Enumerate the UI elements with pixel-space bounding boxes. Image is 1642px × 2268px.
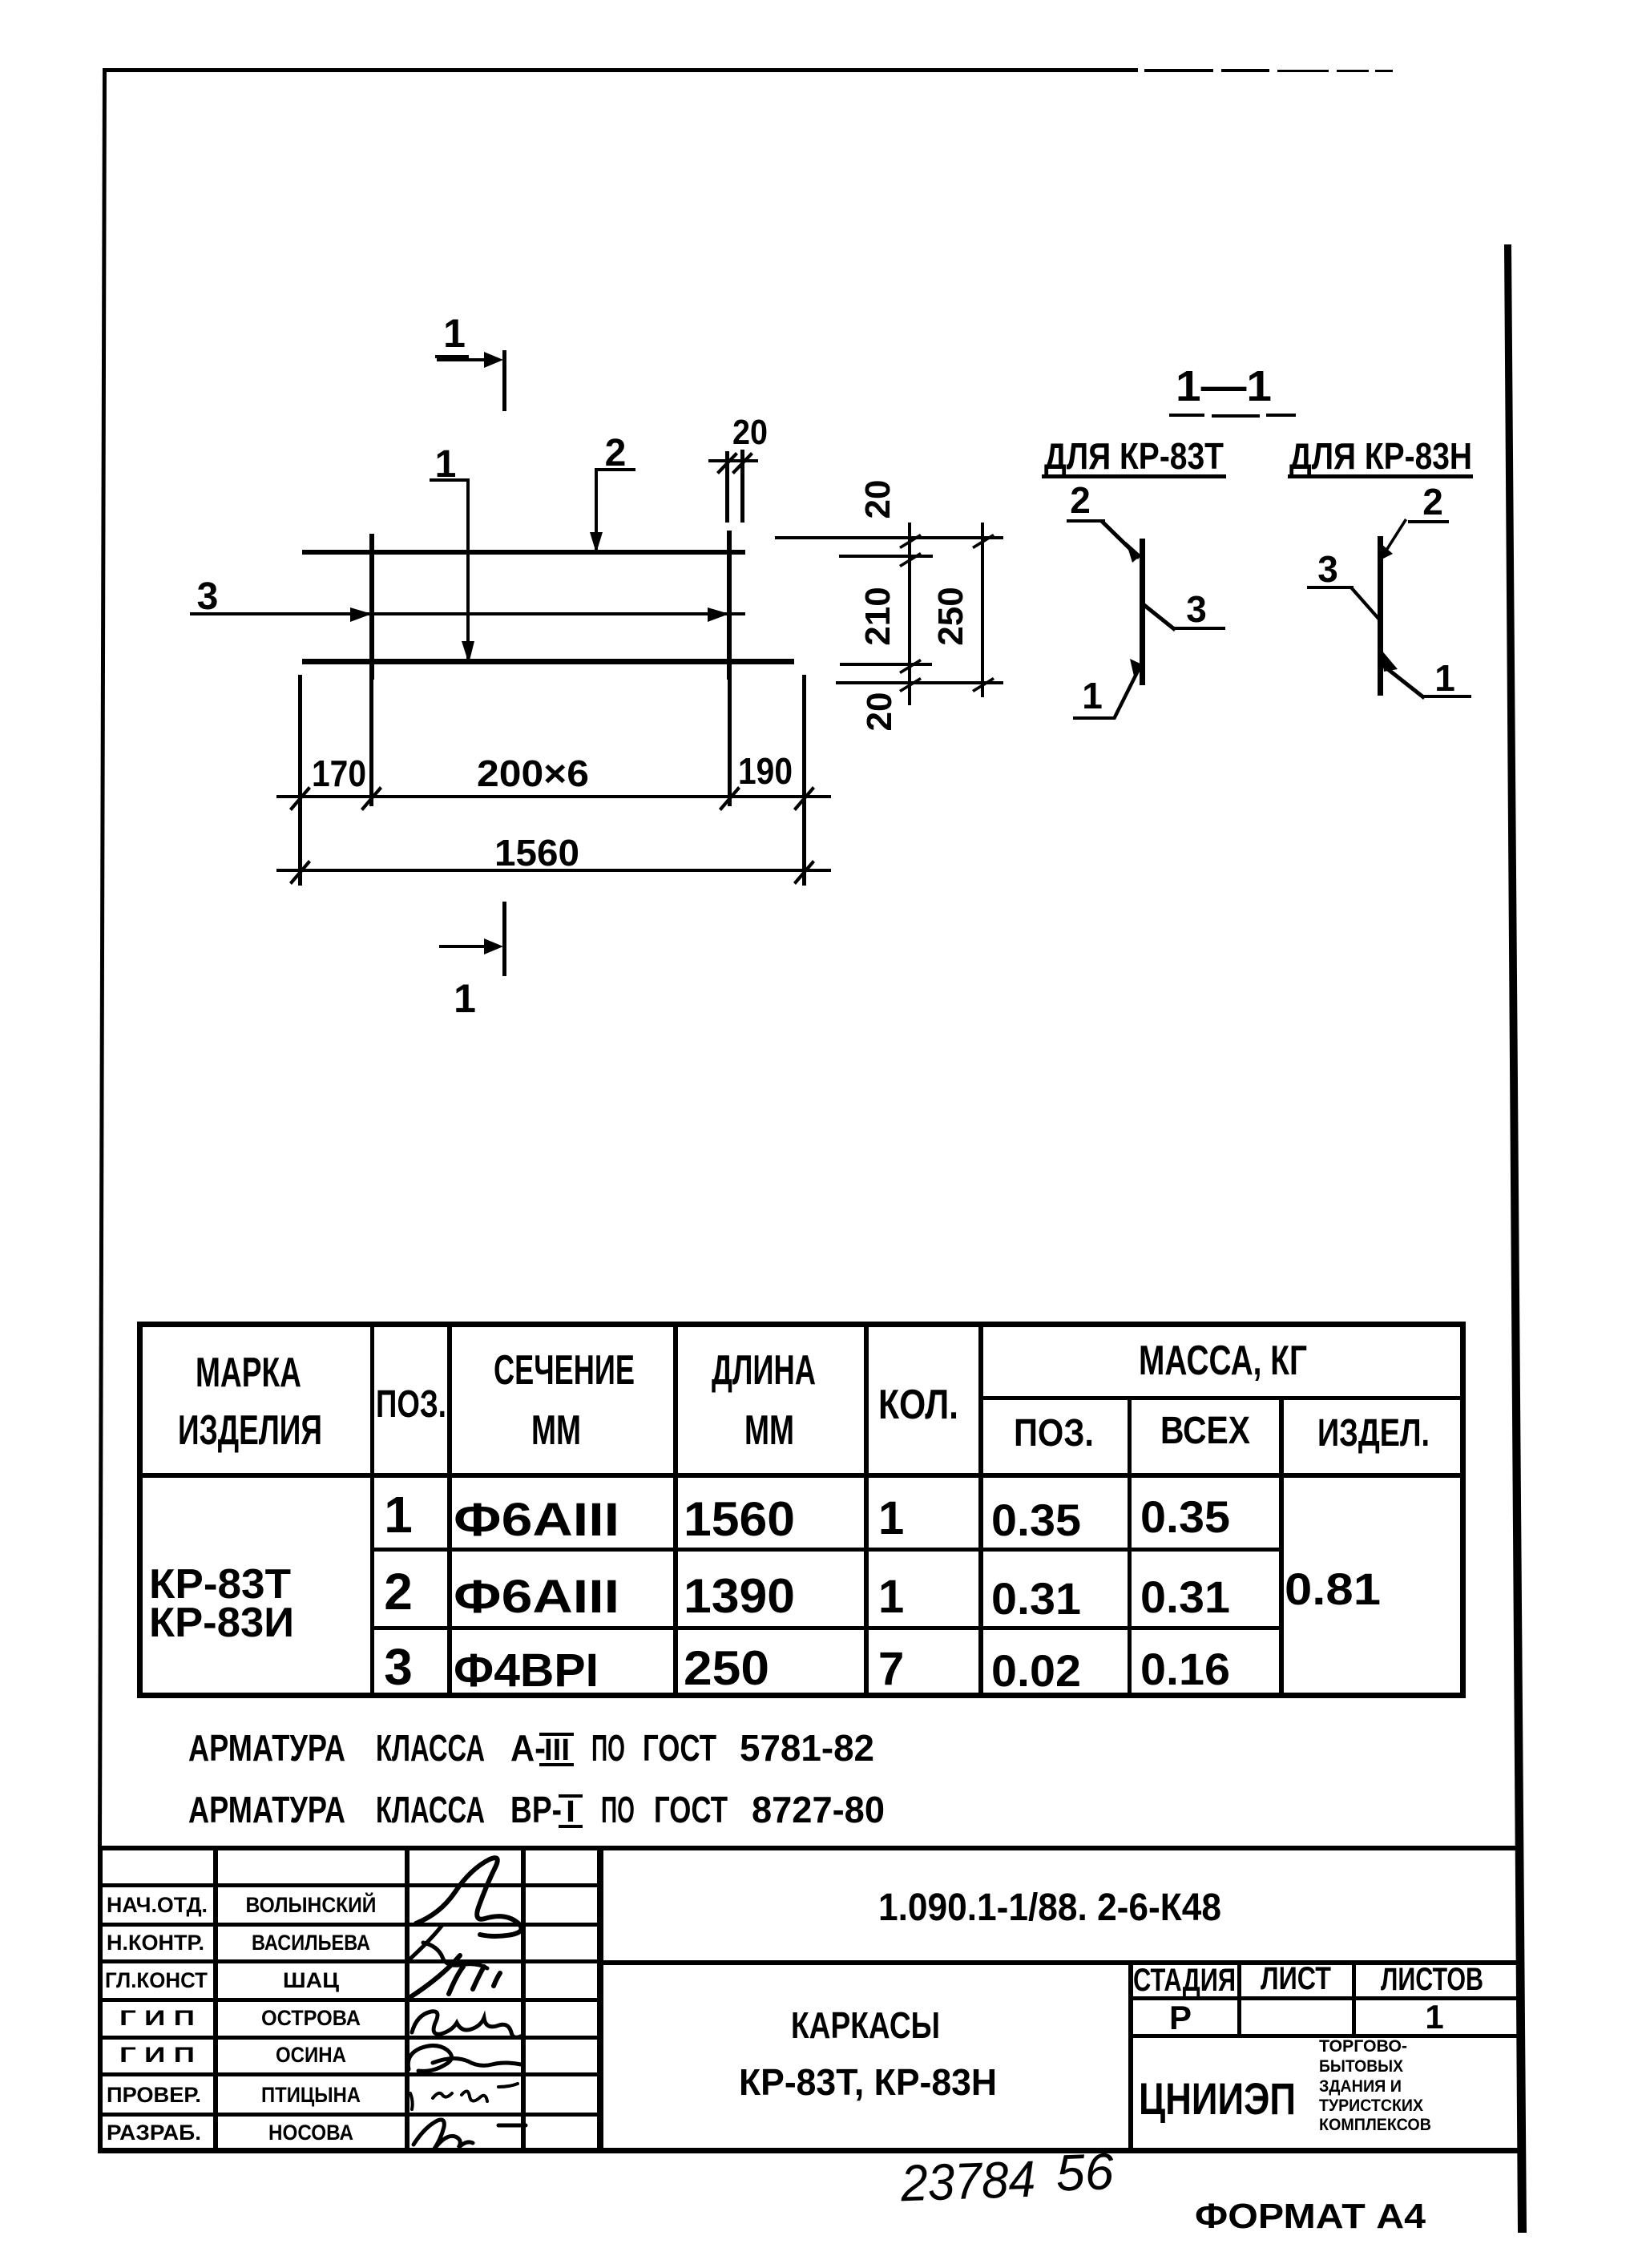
svg-text:БЫТОВЫХ: БЫТОВЫХ	[1319, 2057, 1403, 2076]
svg-text:ШАЦ: ШАЦ	[283, 1968, 339, 1992]
svg-text:ВР-: ВР-	[510, 1789, 562, 1830]
table col line (SECHENIE)	[447, 1322, 452, 1698]
svg-text:1: 1	[1434, 657, 1455, 699]
row line 1	[370, 1548, 1284, 1552]
staff col line 4 / big cell edge	[597, 1846, 603, 2152]
title block top line	[98, 1846, 1522, 1850]
RIGHT SIDE DIMENSIONS	[775, 480, 1003, 732]
section mark 1 top: cut line	[502, 350, 506, 411]
svg-text:ПРОВЕР.: ПРОВЕР.	[107, 2083, 201, 2107]
svg-text:Г И П: Г И П	[119, 2043, 195, 2067]
staff row line 4	[98, 1998, 601, 2002]
KR-83N leader 2	[1382, 519, 1449, 555]
svg-text:АРМАТУРА: АРМАТУРА	[188, 1789, 345, 1830]
doc number cell bottom line	[599, 1960, 1522, 1965]
svg-text:СЕЧЕНИЕ: СЕЧЕНИЕ	[494, 1347, 635, 1394]
svg-text:Р: Р	[1169, 1999, 1192, 2036]
svg-text:1.090.1-1/88. 2-6-К48: 1.090.1-1/88. 2-6-К48	[878, 1887, 1221, 1929]
ticks	[289, 786, 815, 811]
table col line (POS)	[370, 1322, 374, 1698]
stadiya/list divider	[1237, 1960, 1241, 2036]
extension line left end	[298, 675, 302, 886]
bar 1 bottom longitudinal (plan)	[302, 659, 794, 664]
staff row line 2	[98, 1923, 601, 1927]
svg-text:0.35: 0.35	[1140, 1491, 1230, 1542]
TITLE BLOCK	[98, 1846, 1523, 2153]
section mark 1 bottom: cut line	[502, 902, 506, 976]
svg-text:0.31: 0.31	[1140, 1572, 1230, 1622]
svg-text:ДЛЯ КР-83Т: ДЛЯ КР-83Т	[1044, 435, 1224, 477]
stadiya box left edge	[1128, 1960, 1133, 2152]
table col line (POZ/VSEKH)	[1128, 1396, 1132, 1698]
svg-text:3: 3	[197, 575, 219, 618]
svg-text:250: 250	[931, 587, 970, 645]
dim line 20/210/20 vertical	[908, 523, 911, 705]
svg-text:I: I	[566, 1795, 575, 1829]
dim 20 top extension lines	[725, 450, 744, 523]
svg-text:1: 1	[454, 976, 476, 1021]
dim line 1560	[276, 869, 831, 872]
extension line bar2 level	[839, 555, 933, 558]
svg-text:ИЗДЕЛИЯ: ИЗДЕЛИЯ	[178, 1407, 322, 1454]
svg-text:0.35: 0.35	[991, 1495, 1081, 1545]
svg-text:1: 1	[384, 1486, 413, 1544]
svg-text:0.31: 0.31	[991, 1573, 1081, 1624]
svg-text:ПО: ПО	[601, 1789, 635, 1830]
svg-text:Г И П: Г И П	[119, 2006, 195, 2030]
svg-text:ТУРИСТСКИХ: ТУРИСТСКИХ	[1319, 2096, 1423, 2115]
svg-text:Ф6АIII: Ф6АIII	[454, 1571, 619, 1623]
svg-text:0.81: 0.81	[1285, 1564, 1381, 1614]
stadiya header bottom	[1128, 1996, 1517, 2000]
svg-text:1560: 1560	[684, 1492, 795, 1546]
signature volynskiy (large flourish)	[416, 1858, 522, 1936]
section mark 1 top: arrow	[437, 358, 486, 361]
leader line 1 (plan)	[430, 478, 470, 660]
svg-text:ММ: ММ	[531, 1407, 581, 1454]
svg-text:СТАДИЯ: СТАДИЯ	[1133, 1963, 1236, 1998]
BOTTOM DIMENSIONS	[276, 675, 831, 886]
svg-text:КОЛ.: КОЛ.	[878, 1382, 958, 1428]
svg-text:ПОЗ.: ПОЗ.	[376, 1383, 446, 1426]
svg-text:ДЛЯ КР-83Н: ДЛЯ КР-83Н	[1289, 435, 1472, 477]
svg-text:1—1: 1—1	[1176, 362, 1272, 410]
signature ptitsyna	[410, 2084, 518, 2109]
KR-83T leader 2	[1067, 519, 1140, 559]
svg-text:2: 2	[1422, 481, 1443, 523]
frame top border	[103, 68, 1138, 72]
staff col line 3	[521, 1846, 526, 2152]
ticks	[289, 860, 815, 885]
extension line bottom (cross-bar bottom level)	[836, 681, 1003, 684]
section mark 1 top: underline	[435, 355, 469, 358]
svg-text:ПОЗ.: ПОЗ.	[1014, 1412, 1094, 1455]
staff row line 7	[98, 2113, 601, 2117]
svg-text:НОСОВА: НОСОВА	[268, 2121, 353, 2145]
list/listov divider	[1352, 1960, 1356, 2036]
staff row line 6	[98, 2072, 601, 2076]
dim line 170/200x6/190	[276, 795, 831, 798]
extension line top (cross-bar top level)	[775, 536, 1003, 539]
svg-text:ВАСИЛЬЕВА: ВАСИЛЬЕВА	[252, 1931, 370, 1955]
svg-text:Ф6АIII: Ф6АIII	[454, 1494, 619, 1546]
svg-text:1560: 1560	[494, 832, 579, 874]
table outer border	[137, 1322, 1466, 1698]
ticks on 250 dim	[972, 534, 994, 692]
svg-text:ФОРМАТ А4: ФОРМАТ А4	[1195, 2197, 1426, 2236]
MATERIALS TABLE	[137, 1322, 1466, 1698]
svg-text:ВОЛЫНСКИЙ: ВОЛЫНСКИЙ	[246, 1892, 377, 1917]
svg-text:ПО: ПО	[591, 1727, 625, 1769]
svg-text:МАРКА: МАРКА	[196, 1350, 301, 1396]
svg-text:1: 1	[878, 1492, 904, 1544]
staff row line 3	[98, 1959, 601, 1963]
svg-text:РАЗРАБ.: РАЗРАБ.	[107, 2121, 201, 2145]
svg-text:ЛИСТОВ: ЛИСТОВ	[1381, 1962, 1483, 1997]
NOTES	[188, 1727, 885, 1830]
svg-text:ВСЕХ: ВСЕХ	[1160, 1410, 1250, 1452]
svg-text:ГОСТ: ГОСТ	[654, 1789, 728, 1830]
KR-83N leader 1	[1382, 664, 1471, 700]
extension line bar1 level	[840, 663, 932, 666]
cross bar 3 left (plan)	[369, 534, 374, 680]
svg-text:250: 250	[684, 1641, 769, 1695]
svg-text:1: 1	[443, 311, 466, 356]
staff col line 1	[213, 1846, 218, 2152]
staff row line 1	[98, 1883, 601, 1887]
table col line (DLINA)	[673, 1322, 678, 1698]
svg-text:КЛАССА: КЛАССА	[376, 1727, 485, 1769]
svg-text:КАРКАСЫ: КАРКАСЫ	[791, 2004, 940, 2046]
svg-text:ЦНИИЭП: ЦНИИЭП	[1139, 2073, 1296, 2124]
table col line (KOL)	[864, 1322, 869, 1698]
ticks on dim line	[899, 534, 922, 692]
svg-text:ПТИЦЫНА: ПТИЦЫНА	[261, 2083, 361, 2107]
svg-text:1: 1	[878, 1571, 904, 1623]
svg-text:8727-80: 8727-80	[752, 1789, 885, 1830]
FORMAT A4	[1195, 2197, 1426, 2236]
KR-83T leader 1	[1073, 664, 1143, 720]
dim line 250 vertical	[981, 523, 984, 697]
svg-text:АРМАТУРА: АРМАТУРА	[188, 1727, 345, 1769]
underline	[1288, 474, 1473, 478]
title block bottom line (frame bottom)	[98, 2148, 1523, 2153]
svg-text:КОМПЛЕКСОВ: КОМПЛЕКСОВ	[1319, 2116, 1431, 2134]
svg-text:3: 3	[1317, 548, 1338, 590]
svg-text:КР-83Т, КР-83Н: КР-83Т, КР-83Н	[739, 2061, 997, 2103]
svg-text:НАЧ.ОТД.: НАЧ.ОТД.	[107, 1893, 208, 1917]
svg-text:23784: 23784	[899, 2150, 1036, 2213]
BOTTOM HANDWRITTEN NUMBER	[899, 2142, 1115, 2212]
massa split line	[978, 1396, 1466, 1400]
svg-text:ЗДАНИЯ И: ЗДАНИЯ И	[1319, 2077, 1402, 2096]
svg-text:ММ: ММ	[744, 1407, 794, 1454]
bar 2 top longitudinal (plan)	[302, 550, 745, 555]
staff table left edge	[98, 1846, 103, 2152]
svg-text:МАССА, КГ: МАССА, КГ	[1139, 1338, 1307, 1384]
svg-text:20: 20	[732, 413, 768, 452]
svg-text:ЛИСТ: ЛИСТ	[1261, 1961, 1331, 1996]
SIGNATURES	[408, 1858, 526, 2151]
svg-text:КЛАССА: КЛАССА	[376, 1789, 485, 1830]
svg-text:ОСТРОВА: ОСТРОВА	[261, 2006, 361, 2030]
table col line (MASSA group)	[978, 1322, 983, 1698]
svg-text:56: 56	[1055, 2142, 1115, 2201]
KR-83T cross bar (section)	[1140, 539, 1145, 685]
svg-text:0.02: 0.02	[991, 1645, 1081, 1696]
svg-text:ОСИНА: ОСИНА	[276, 2043, 346, 2067]
dim 20 top tick marks	[716, 452, 753, 474]
svg-text:ТОРГОВО-: ТОРГОВО-	[1319, 2037, 1407, 2056]
svg-text:ИЗДЕЛ.: ИЗДЕЛ.	[1317, 1412, 1430, 1455]
svg-text:5781-82: 5781-82	[740, 1727, 874, 1769]
svg-text:3: 3	[1186, 588, 1207, 630]
extension line cross-bar right	[728, 680, 732, 806]
extension line cross-bar left	[369, 680, 373, 806]
staff row line 5	[98, 2036, 601, 2040]
table col line (VSEKH/IZDEL)	[1279, 1396, 1284, 1698]
PLAN VIEW OF CAGE	[190, 311, 794, 1021]
underline	[1042, 474, 1226, 478]
svg-text:КР-83И: КР-83И	[149, 1600, 294, 1646]
svg-text:200×6: 200×6	[477, 753, 589, 794]
svg-text:Ф4ВРI: Ф4ВРI	[454, 1645, 599, 1697]
svg-text:ГЛ.КОНСТ: ГЛ.КОНСТ	[105, 1968, 208, 1992]
svg-text:ГОСТ: ГОСТ	[643, 1727, 716, 1769]
extension line right end	[802, 675, 806, 886]
svg-text:Н.КОНТР.: Н.КОНТР.	[107, 1931, 204, 1955]
leader line 3 (plan)	[190, 612, 745, 615]
svg-text:20: 20	[858, 480, 898, 519]
signature osina	[408, 2045, 521, 2071]
svg-text:1: 1	[1082, 675, 1103, 716]
leader line 2 (plan)	[595, 468, 635, 550]
signature nosova dash	[498, 2124, 526, 2128]
cross bar 3 right (plan)	[727, 531, 732, 680]
table header bottom line	[137, 1473, 1466, 1478]
svg-text:1390: 1390	[684, 1569, 795, 1623]
frame left border	[98, 68, 107, 1848]
svg-text:2: 2	[384, 1563, 413, 1620]
svg-text:0.16: 0.16	[1140, 1644, 1230, 1694]
dim 20 top dim line	[708, 459, 758, 462]
svg-text:1: 1	[1425, 1998, 1443, 2036]
frame right border	[1504, 244, 1527, 2233]
signature ostrova	[412, 2012, 522, 2038]
section title underline dashes	[1169, 414, 1296, 418]
KR-83T leader 3	[1142, 603, 1225, 632]
svg-text:III: III	[544, 1733, 570, 1767]
SECTION VIEWS 1-1	[1042, 362, 1473, 720]
svg-text:2: 2	[1070, 479, 1091, 521]
svg-text:210: 210	[858, 587, 898, 645]
signature shats	[410, 1955, 500, 1997]
svg-text:170: 170	[312, 753, 366, 794]
svg-text:3: 3	[384, 1638, 413, 1696]
svg-text:ДЛИНА: ДЛИНА	[712, 1347, 816, 1394]
svg-text:7: 7	[878, 1643, 904, 1695]
signature nosova	[414, 2120, 473, 2151]
staff col line 2	[405, 1846, 409, 2152]
svg-text:20: 20	[860, 692, 899, 732]
signature vasilyeva	[410, 1925, 487, 1968]
frame top border dashes	[1144, 69, 1393, 72]
KR-83N cross bar (section)	[1378, 536, 1383, 696]
KR-83N leader 3	[1307, 586, 1382, 622]
svg-text:190: 190	[738, 750, 793, 792]
stadiya row bottom	[1128, 2034, 1517, 2038]
section mark 1 bottom: arrow	[439, 945, 487, 948]
row line 2	[370, 1626, 1284, 1630]
